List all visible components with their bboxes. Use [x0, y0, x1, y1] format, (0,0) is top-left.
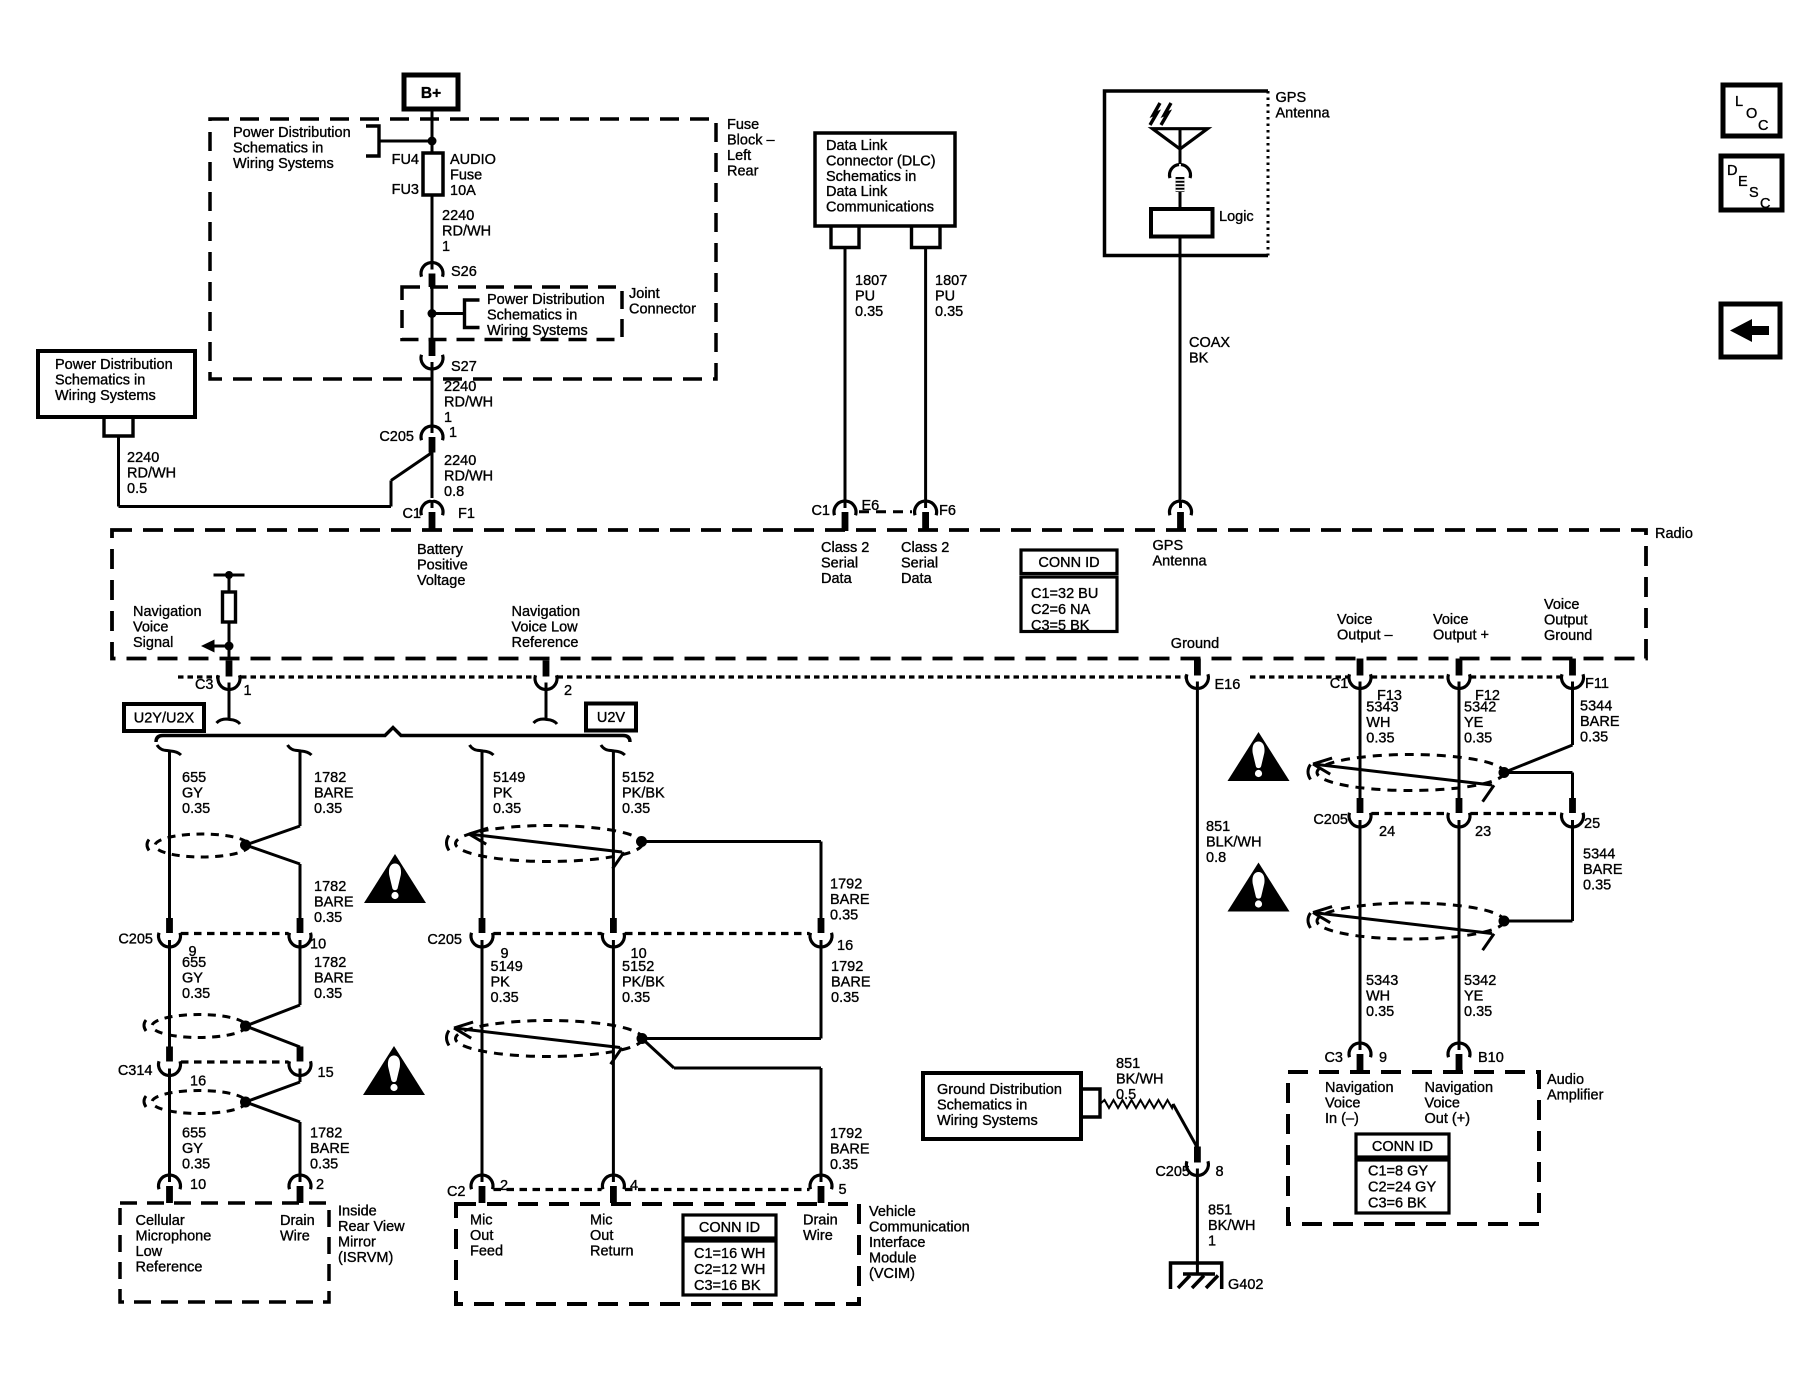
svg-text:15: 15 — [318, 1065, 334, 1081]
svg-text:Navigation: Navigation — [1325, 1080, 1394, 1096]
svg-text:COAX: COAX — [1189, 335, 1230, 351]
svg-text:655: 655 — [182, 955, 206, 971]
svg-text:PU: PU — [935, 289, 955, 305]
svg-text:U2V: U2V — [597, 710, 626, 726]
svg-text:RD/WH: RD/WH — [442, 224, 491, 240]
svg-text:Module: Module — [869, 1251, 917, 1267]
svg-text:Schematics in: Schematics in — [55, 373, 145, 389]
svg-text:C3=6 BK: C3=6 BK — [1368, 1196, 1427, 1212]
svg-text:10: 10 — [310, 937, 326, 953]
svg-text:5: 5 — [839, 1182, 847, 1198]
svg-text:0.35: 0.35 — [1464, 1004, 1492, 1020]
svg-text:B10: B10 — [1478, 1050, 1504, 1066]
svg-text:BARE: BARE — [830, 892, 870, 908]
svg-text:Connector: Connector — [629, 302, 696, 318]
svg-text:1807: 1807 — [935, 273, 967, 289]
svg-text:G402: G402 — [1228, 1277, 1263, 1293]
svg-text:2: 2 — [316, 1177, 324, 1193]
svg-text:0.35: 0.35 — [314, 910, 342, 926]
svg-text:Output: Output — [1544, 613, 1588, 629]
svg-text:Rear View: Rear View — [338, 1219, 405, 1235]
svg-text:0.35: 0.35 — [855, 304, 883, 320]
svg-text:E16: E16 — [1215, 677, 1241, 693]
svg-text:5344: 5344 — [1580, 699, 1612, 715]
svg-text:D: D — [1727, 163, 1737, 179]
svg-text:5152: 5152 — [622, 770, 654, 786]
svg-text:0.8: 0.8 — [444, 484, 464, 500]
svg-text:Fuse: Fuse — [727, 117, 759, 133]
svg-text:1: 1 — [1208, 1234, 1216, 1250]
svg-text:Data Link: Data Link — [826, 138, 888, 154]
svg-text:Reference: Reference — [136, 1260, 203, 1276]
svg-text:C205: C205 — [379, 429, 414, 445]
svg-text:Voice Low: Voice Low — [512, 620, 579, 636]
svg-text:0.35: 0.35 — [830, 1157, 858, 1173]
svg-text:C3: C3 — [195, 677, 214, 693]
svg-text:Wire: Wire — [280, 1229, 310, 1245]
svg-text:F1: F1 — [458, 506, 475, 522]
svg-text:0.35: 0.35 — [1366, 1004, 1394, 1020]
svg-text:Navigation: Navigation — [512, 604, 581, 620]
svg-text:S26: S26 — [451, 264, 477, 280]
svg-text:WH: WH — [1366, 989, 1390, 1005]
svg-text:0.35: 0.35 — [1583, 878, 1611, 894]
svg-text:Left: Left — [727, 148, 751, 164]
svg-text:FU3: FU3 — [392, 182, 419, 198]
svg-text:WH: WH — [1366, 715, 1390, 731]
svg-text:BARE: BARE — [1583, 862, 1623, 878]
svg-text:0.5: 0.5 — [127, 481, 147, 497]
svg-text:PK: PK — [491, 975, 511, 991]
svg-text:Vehicle: Vehicle — [869, 1204, 916, 1220]
svg-text:0.35: 0.35 — [493, 801, 521, 817]
svg-text:1782: 1782 — [314, 879, 346, 895]
svg-text:Ground: Ground — [1171, 636, 1219, 652]
svg-text:CONN ID: CONN ID — [1038, 555, 1099, 571]
svg-text:Output –: Output – — [1337, 628, 1394, 644]
svg-text:Reference: Reference — [512, 635, 579, 651]
svg-text:C: C — [1758, 118, 1768, 134]
svg-text:0.35: 0.35 — [622, 801, 650, 817]
svg-text:Connector (DLC): Connector (DLC) — [826, 153, 936, 169]
svg-text:Wiring Systems: Wiring Systems — [55, 388, 156, 404]
svg-text:F6: F6 — [939, 503, 956, 519]
svg-text:S27: S27 — [451, 359, 477, 375]
svg-text:0.35: 0.35 — [935, 304, 963, 320]
svg-text:Mirror: Mirror — [338, 1235, 376, 1251]
svg-text:Fuse: Fuse — [450, 168, 482, 184]
svg-text:Class 2: Class 2 — [821, 540, 869, 556]
svg-text:Navigation: Navigation — [1425, 1080, 1494, 1096]
svg-text:Ground Distribution: Ground Distribution — [937, 1082, 1062, 1098]
svg-text:Cellular: Cellular — [136, 1213, 185, 1229]
svg-text:F11: F11 — [1585, 676, 1609, 692]
svg-text:U2Y/U2X: U2Y/U2X — [134, 711, 195, 727]
svg-text:1807: 1807 — [855, 273, 887, 289]
svg-text:Wiring Systems: Wiring Systems — [937, 1113, 1038, 1129]
svg-text:BARE: BARE — [314, 895, 354, 911]
svg-text:(VCIM): (VCIM) — [869, 1266, 915, 1282]
svg-text:0.35: 0.35 — [1580, 730, 1608, 746]
svg-text:RD/WH: RD/WH — [127, 466, 176, 482]
svg-text:0.35: 0.35 — [314, 986, 342, 1002]
svg-text:L: L — [1735, 94, 1743, 110]
svg-text:4: 4 — [630, 1178, 638, 1194]
svg-text:C1: C1 — [811, 503, 830, 519]
svg-text:0.35: 0.35 — [831, 990, 859, 1006]
svg-text:BK: BK — [1189, 351, 1209, 367]
svg-text:Wiring Systems: Wiring Systems — [487, 323, 588, 339]
svg-text:Low: Low — [136, 1244, 163, 1260]
svg-text:1: 1 — [449, 425, 457, 441]
svg-text:Mic: Mic — [590, 1213, 613, 1229]
svg-text:BARE: BARE — [314, 971, 354, 987]
svg-text:0.35: 0.35 — [182, 986, 210, 1002]
svg-text:Power Distribution: Power Distribution — [55, 357, 173, 373]
svg-text:Amplifier: Amplifier — [1547, 1088, 1604, 1104]
svg-text:0.35: 0.35 — [1366, 731, 1394, 747]
svg-text:C1=32 BU: C1=32 BU — [1031, 586, 1098, 602]
svg-text:0.35: 0.35 — [314, 801, 342, 817]
svg-text:1792: 1792 — [831, 959, 863, 975]
svg-text:Return: Return — [590, 1244, 634, 1260]
svg-text:1792: 1792 — [830, 1126, 862, 1142]
svg-text:Voice: Voice — [1544, 597, 1579, 613]
svg-text:C205: C205 — [118, 932, 153, 948]
svg-text:Voice: Voice — [1425, 1096, 1460, 1112]
svg-text:Battery: Battery — [417, 542, 464, 558]
svg-text:C2: C2 — [447, 1184, 466, 1200]
svg-text:Interface: Interface — [869, 1235, 925, 1251]
svg-text:Voice: Voice — [1433, 612, 1468, 628]
svg-text:Navigation: Navigation — [133, 604, 202, 620]
svg-text:AUDIO: AUDIO — [450, 152, 496, 168]
svg-text:Class 2: Class 2 — [901, 540, 949, 556]
svg-text:CONN ID: CONN ID — [1372, 1139, 1433, 1155]
svg-text:BK/WH: BK/WH — [1116, 1072, 1164, 1088]
svg-text:2: 2 — [500, 1178, 508, 1194]
svg-text:0.35: 0.35 — [830, 908, 858, 924]
svg-text:C1=16 WH: C1=16 WH — [694, 1246, 765, 1262]
svg-text:Schematics in: Schematics in — [487, 308, 577, 324]
svg-text:Power Distribution: Power Distribution — [233, 125, 351, 141]
svg-text:C314: C314 — [118, 1063, 153, 1079]
svg-text:10: 10 — [190, 1177, 206, 1193]
svg-text:Wiring Systems: Wiring Systems — [233, 156, 334, 172]
svg-text:9: 9 — [1379, 1050, 1387, 1066]
svg-text:CONN ID: CONN ID — [699, 1220, 760, 1236]
svg-text:In (–): In (–) — [1325, 1111, 1359, 1127]
svg-text:(ISRVM): (ISRVM) — [338, 1250, 393, 1266]
svg-text:C205: C205 — [1155, 1164, 1190, 1180]
svg-text:Ground: Ground — [1544, 628, 1592, 644]
svg-text:Mic: Mic — [470, 1213, 493, 1229]
svg-text:YE: YE — [1464, 715, 1484, 731]
svg-text:C1: C1 — [1330, 676, 1349, 692]
svg-text:Serial: Serial — [901, 556, 938, 572]
svg-text:Wire: Wire — [803, 1228, 833, 1244]
svg-text:0.35: 0.35 — [182, 1157, 210, 1173]
svg-text:Feed: Feed — [470, 1244, 503, 1260]
svg-text:8: 8 — [1216, 1164, 1224, 1180]
svg-text:Voice: Voice — [1337, 612, 1372, 628]
svg-text:YE: YE — [1464, 989, 1484, 1005]
svg-text:5342: 5342 — [1464, 700, 1496, 716]
svg-text:BARE: BARE — [314, 786, 354, 802]
svg-text:C3=5 BK: C3=5 BK — [1031, 618, 1090, 634]
svg-text:16: 16 — [837, 938, 853, 954]
svg-text:Data: Data — [821, 571, 853, 587]
svg-text:Positive: Positive — [417, 558, 468, 574]
svg-text:FU4: FU4 — [392, 152, 419, 168]
svg-text:16: 16 — [190, 1074, 206, 1090]
svg-text:1782: 1782 — [314, 955, 346, 971]
svg-text:C1=8 GY: C1=8 GY — [1368, 1164, 1428, 1180]
svg-text:BLK/WH: BLK/WH — [1206, 835, 1262, 851]
svg-text:BK/WH: BK/WH — [1208, 1218, 1256, 1234]
svg-text:Communication: Communication — [869, 1220, 970, 1236]
svg-text:2240: 2240 — [444, 379, 476, 395]
svg-text:Schematics in: Schematics in — [826, 169, 916, 185]
svg-text:Schematics in: Schematics in — [233, 141, 323, 157]
svg-text:1: 1 — [244, 683, 252, 699]
svg-text:5342: 5342 — [1464, 973, 1496, 989]
svg-text:1782: 1782 — [314, 770, 346, 786]
svg-text:5343: 5343 — [1366, 700, 1398, 716]
svg-text:BARE: BARE — [831, 975, 871, 991]
svg-text:BARE: BARE — [830, 1142, 870, 1158]
svg-text:PU: PU — [855, 289, 875, 305]
svg-text:RD/WH: RD/WH — [444, 469, 493, 485]
svg-text:Drain: Drain — [280, 1213, 315, 1229]
svg-text:655: 655 — [182, 770, 206, 786]
svg-text:C205: C205 — [427, 932, 462, 948]
svg-text:GPS: GPS — [1276, 90, 1307, 106]
svg-text:RD/WH: RD/WH — [444, 395, 493, 411]
svg-text:24: 24 — [1379, 824, 1395, 840]
svg-text:PK/BK: PK/BK — [622, 786, 665, 802]
svg-text:23: 23 — [1475, 824, 1491, 840]
svg-text:851: 851 — [1208, 1203, 1232, 1219]
svg-text:O: O — [1746, 106, 1757, 122]
svg-text:851: 851 — [1206, 819, 1230, 835]
svg-text:0.35: 0.35 — [622, 990, 650, 1006]
svg-text:Out (+): Out (+) — [1425, 1111, 1471, 1127]
svg-text:Schematics in: Schematics in — [937, 1098, 1027, 1114]
svg-text:C1: C1 — [402, 506, 421, 522]
svg-text:Drain: Drain — [803, 1213, 838, 1229]
svg-text:Audio: Audio — [1547, 1072, 1584, 1088]
svg-text:0.8: 0.8 — [1206, 850, 1226, 866]
svg-text:PK/BK: PK/BK — [622, 975, 665, 991]
svg-text:S: S — [1749, 185, 1759, 201]
svg-text:GY: GY — [182, 971, 203, 987]
svg-text:5149: 5149 — [491, 959, 523, 975]
svg-text:Signal: Signal — [133, 635, 173, 651]
svg-text:1792: 1792 — [830, 877, 862, 893]
svg-text:Antenna: Antenna — [1276, 106, 1331, 122]
svg-text:655: 655 — [182, 1126, 206, 1142]
svg-text:5343: 5343 — [1366, 973, 1398, 989]
svg-text:B+: B+ — [421, 85, 441, 102]
svg-text:Microphone: Microphone — [136, 1229, 212, 1245]
svg-text:Logic: Logic — [1219, 209, 1254, 225]
svg-text:0.35: 0.35 — [182, 801, 210, 817]
svg-text:Radio: Radio — [1655, 526, 1693, 542]
svg-text:1782: 1782 — [310, 1126, 342, 1142]
svg-text:Serial: Serial — [821, 556, 858, 572]
svg-text:2: 2 — [564, 683, 572, 699]
svg-text:Voltage: Voltage — [417, 573, 465, 589]
svg-text:851: 851 — [1116, 1056, 1140, 1072]
svg-text:2240: 2240 — [444, 453, 476, 469]
svg-text:5152: 5152 — [622, 959, 654, 975]
svg-text:2240: 2240 — [127, 450, 159, 466]
svg-text:Communications: Communications — [826, 200, 934, 216]
svg-text:1: 1 — [442, 239, 450, 255]
svg-text:Rear: Rear — [727, 164, 759, 180]
svg-text:BARE: BARE — [310, 1141, 350, 1157]
svg-text:E: E — [1738, 174, 1748, 190]
svg-text:Joint: Joint — [629, 286, 660, 302]
svg-text:C3=16 BK: C3=16 BK — [694, 1278, 761, 1294]
svg-text:PK: PK — [493, 786, 513, 802]
svg-text:0.5: 0.5 — [1116, 1087, 1136, 1103]
svg-text:GY: GY — [182, 786, 203, 802]
svg-text:0.35: 0.35 — [491, 990, 519, 1006]
svg-text:Data Link: Data Link — [826, 184, 888, 200]
svg-text:C2=24 GY: C2=24 GY — [1368, 1180, 1436, 1196]
svg-text:BARE: BARE — [1580, 714, 1620, 730]
svg-text:Power Distribution: Power Distribution — [487, 292, 605, 308]
svg-text:Block –: Block – — [727, 133, 775, 149]
svg-text:C3: C3 — [1324, 1050, 1343, 1066]
svg-text:0.35: 0.35 — [1464, 731, 1492, 747]
svg-text:2240: 2240 — [442, 208, 474, 224]
svg-text:Out: Out — [470, 1228, 493, 1244]
svg-text:C2=6 NA: C2=6 NA — [1031, 602, 1091, 618]
svg-text:25: 25 — [1584, 816, 1600, 832]
svg-text:Voice: Voice — [1325, 1096, 1360, 1112]
svg-text:0.35: 0.35 — [310, 1157, 338, 1173]
svg-text:Antenna: Antenna — [1153, 554, 1208, 570]
svg-text:Out: Out — [590, 1228, 613, 1244]
svg-text:C2=12 WH: C2=12 WH — [694, 1262, 765, 1278]
svg-text:Output +: Output + — [1433, 628, 1489, 644]
svg-text:Voice: Voice — [133, 620, 168, 636]
svg-text:C: C — [1760, 196, 1770, 212]
svg-text:5149: 5149 — [493, 770, 525, 786]
svg-text:GY: GY — [182, 1141, 203, 1157]
svg-text:10A: 10A — [450, 183, 476, 199]
svg-text:Data: Data — [901, 571, 933, 587]
svg-text:C205: C205 — [1313, 812, 1348, 828]
svg-text:1: 1 — [444, 410, 452, 426]
svg-text:GPS: GPS — [1153, 538, 1184, 554]
svg-text:Inside: Inside — [338, 1204, 377, 1220]
svg-text:5344: 5344 — [1583, 847, 1615, 863]
